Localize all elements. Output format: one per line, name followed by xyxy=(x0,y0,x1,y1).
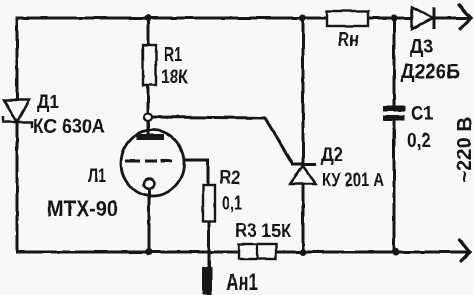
svg-text:МТХ-90: МТХ-90 xyxy=(47,196,118,221)
svg-text:18К: 18К xyxy=(161,67,188,88)
svg-text:R3 15К: R3 15К xyxy=(235,221,291,242)
svg-text:Д2: Д2 xyxy=(321,145,343,166)
svg-text:Д3: Д3 xyxy=(410,37,433,58)
svg-text:Rн: Rн xyxy=(338,29,359,51)
svg-text:Д226Б: Д226Б xyxy=(401,61,460,83)
svg-text:КС 630А: КС 630А xyxy=(33,116,105,138)
svg-text:R1: R1 xyxy=(164,45,182,66)
svg-text:С1: С1 xyxy=(411,103,433,125)
svg-text:0,1: 0,1 xyxy=(222,193,242,213)
svg-text:Д1: Д1 xyxy=(37,92,59,113)
svg-text:КУ 201 А: КУ 201 А xyxy=(322,170,384,190)
svg-text:Ан1: Ан1 xyxy=(226,269,258,295)
svg-text:R2: R2 xyxy=(219,168,240,189)
svg-text:Л1: Л1 xyxy=(88,166,106,187)
svg-text:0,2: 0,2 xyxy=(407,130,431,152)
svg-text:~220 В: ~220 В xyxy=(454,117,474,183)
